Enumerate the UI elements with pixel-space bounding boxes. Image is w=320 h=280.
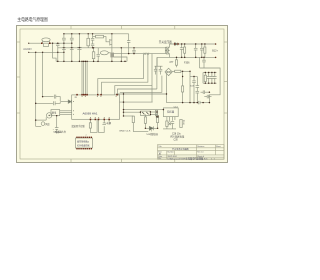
wire bottom rail [56,60,127,62]
wire lamp link [36,119,47,121]
wire feedback L4 [118,89,157,95]
svg-text:Number: Number [168,152,175,154]
wire feedback L5 [120,76,162,93]
capacitor C1 stack [63,34,65,38]
svg-text:开关变压器: 开关变压器 [159,40,172,44]
capacitor C3 [78,34,80,48]
wire relay pin b [60,112,72,114]
capacitor C20b [53,101,55,105]
capacitor C9b [155,66,157,69]
wire filter left leg [202,73,204,84]
wire aux drop 2 [189,71,191,102]
wire opto out bottom [150,114,157,116]
wire top rail extension [64,33,129,35]
wire aux drop [182,71,184,86]
wire relay pin a [60,110,72,112]
relay K1 box [51,110,60,116]
svg-text:VB(a)n1: VB(a)n1 [53,132,62,134]
wire low rail left [120,101,153,103]
wire bundle pin 1 [81,61,83,95]
resistor R15 [132,115,134,117]
transformer T1 primary winding [165,47,167,53]
capacitor C15 [211,73,213,77]
wire bundle pin 3 [84,61,86,95]
svg-text:Sheet: Sheet [216,145,221,148]
capacitor C19 series [197,101,199,104]
bridge rectifier B1 [165,68,172,75]
wire output loop [200,68,221,103]
wire feedback L1 [98,54,144,95]
fuse FU1 [42,38,50,42]
shunt reg TL431 D4 [145,127,157,129]
capacitor C2 stack [71,34,73,38]
svg-text:Sheet of: Sheet of [197,155,204,158]
wire drain to primary [114,53,166,55]
wire feedback L3 [115,86,152,95]
wire sense bottom rail [36,102,53,104]
wire AC line L top [29,42,42,44]
svg-text:Title: Title [158,145,161,148]
border zone ticks [17,26,228,163]
capacitor C7 [195,44,197,48]
resistor R11 U loop [89,119,91,123]
wire filter bottom rail [203,82,217,84]
capacitor C17 [201,91,204,93]
wire bus tap 3 [124,111,141,113]
junction dots [28,33,215,129]
capacitor C8 [201,44,203,48]
svg-text:File: File [158,158,161,160]
transformer T1 secondary winding [168,47,170,53]
capacitor C20a [53,95,55,99]
wire mid vertical [120,48,122,62]
vertical component R14 [180,120,182,128]
capacitor C5 [128,34,130,41]
connector J1 DIP box [76,138,93,148]
wire rail to aux drop [156,57,158,66]
capacitor C13 [203,57,205,60]
wire N sense drop [35,52,37,120]
wire source to rail [114,57,127,61]
output terminal pads [215,43,217,58]
wire low rail right [167,102,199,104]
inner border [20,29,224,159]
svg-text:Revision: Revision [197,146,204,148]
wire L sense drop [42,52,44,96]
schematic sheet [17,26,228,163]
capacitor C16 [214,73,216,77]
resistor R17 [157,118,159,123]
capacitor C4 [97,48,99,55]
wire vertical V3 [151,54,153,103]
diode D3 [68,100,71,103]
wire pad link [116,93,166,96]
title block [158,145,225,160]
motor symbol M1 [41,122,45,126]
resistor R8 [175,70,181,72]
wire under U3 [163,128,176,130]
wire opto node [156,112,158,118]
wire opto out top [150,111,157,113]
transistor Q1 gate [109,39,111,46]
svg-text:Rev 1.0: Rev 1.0 [197,152,203,154]
transformer T1 core [166,47,168,55]
capacitor C10 [193,77,195,81]
capacitor C12 [196,90,200,92]
diode D2 [175,43,178,46]
wire bus tap 2 [124,109,164,111]
svg-text:主电路电气原理图: 主电路电气原理图 [17,16,48,23]
wire motor link [36,120,42,126]
wire stub pin [108,119,110,122]
svg-text:GND CLK: GND CLK [119,130,131,132]
svg-text:C28 10u: C28 10u [172,134,181,136]
inductor L2 [100,51,108,55]
resistor R7 [175,60,177,65]
resistor R13 [166,121,168,127]
resistor R9 [182,86,184,92]
wire feedback L2 [102,54,148,95]
capacitor C23 [171,121,175,123]
preset RP1 [156,115,159,117]
svg-text:477: 477 [169,61,174,64]
capacitor C22 U loop [99,119,105,132]
resistor R10 [204,75,206,81]
wire right bus [123,92,125,116]
optocoupler U2 [140,111,150,115]
capacitor CX1 [57,42,59,45]
capacitor C14 [208,73,210,77]
svg-text:AC220V: AC220V [23,48,32,51]
capacitor C18 [204,96,207,98]
wire bundle pin 4 [86,61,88,95]
wire U3 bottom pins [166,117,168,121]
resistor R5 [96,35,104,38]
wire filter top rail [203,72,217,74]
svg-text:F356: F356 [184,62,190,65]
resistor R6 [184,47,186,53]
ferrite hatch [144,53,149,55]
wire secondary low rail [157,56,216,58]
wire relay pin c [60,113,72,115]
lamp symbol [47,113,52,118]
capacitor C4b [133,48,135,51]
pin number marks [73,96,117,118]
wire aux top bar [155,65,163,67]
wire sense top rail [43,96,54,98]
wire drop from L to bottom rail [53,43,57,61]
resistor R16 [144,114,146,117]
crystal X1 [168,122,171,125]
capacitor C9 [160,66,162,69]
svg-text:B12+: B12+ [212,50,218,53]
wire aux link [190,76,197,78]
component pads maroon [41,43,179,150]
wire secondary bottom [169,54,171,58]
resistor R4 [92,52,95,59]
mosfet body blob [110,53,114,58]
wire bridge to rail [166,74,168,103]
resistor R1 [87,38,90,46]
capacitor C21 polarized [56,116,58,128]
wire bus tap 4 [124,115,134,117]
svg-text:A6069 HA1: A6069 HA1 [83,113,99,116]
capacitor C3a stack [92,34,94,39]
resistor R18 [204,47,206,53]
wire secondary top to rail [170,44,174,47]
wire bundle pin 2 [83,61,85,95]
resistor R12 [156,110,158,116]
wire AC line N bottom [29,51,64,53]
op-amp U1 box [72,95,120,119]
svg-text:C30: C30 [174,140,179,142]
capacitor C6 [181,44,183,48]
wire top rail of bulk caps [64,33,80,35]
wire HV rail [58,47,166,49]
regulator U3 box [163,108,178,117]
capacitor C11 [196,77,198,86]
wire primary bottom [164,47,166,53]
